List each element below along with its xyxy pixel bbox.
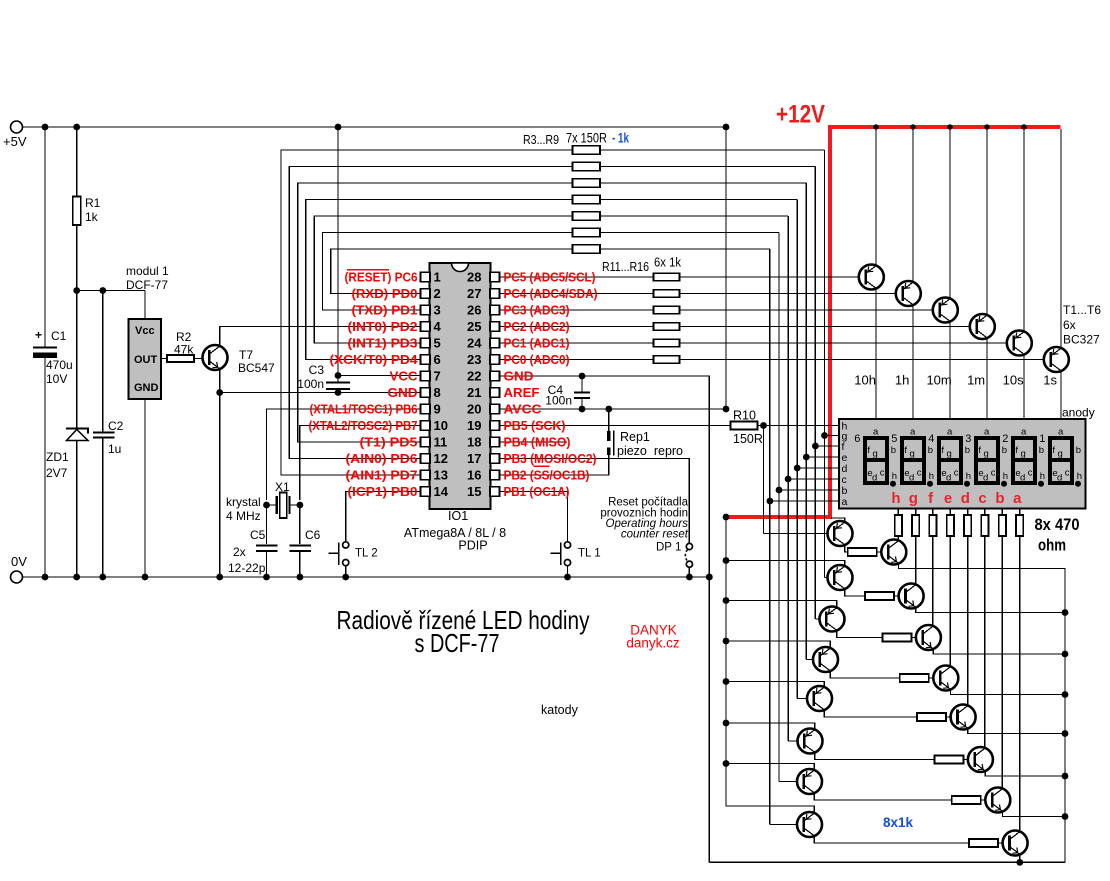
svg-text:1k: 1k xyxy=(85,210,99,224)
svg-text:g: g xyxy=(984,449,989,460)
label pin 20 AVCC xyxy=(504,403,542,417)
wire pair2 emitter feed xyxy=(726,561,845,566)
svg-text:R3...R9: R3...R9 xyxy=(523,132,559,147)
wire PC2 row xyxy=(500,326,654,328)
svg-text:19: 19 xyxy=(467,418,481,433)
svg-text:100n: 100n xyxy=(297,377,324,391)
junction ground C2 xyxy=(99,574,106,581)
resistor 470R col d xyxy=(964,515,971,536)
wire ZD1 to ground xyxy=(76,441,78,578)
svg-text:c: c xyxy=(880,468,885,479)
svg-text:(XTAL1/TOSC1) PB6: (XTAL1/TOSC1) PB6 xyxy=(310,403,418,417)
junction ground TL1 xyxy=(564,574,571,581)
svg-text:(AIN1) PD7: (AIN1) PD7 xyxy=(346,469,418,483)
svg-text:PC1 (ADC1): PC1 (ADC1) xyxy=(504,337,570,351)
wire display cathode a xyxy=(1019,509,1021,516)
svg-text:1s: 1s xyxy=(1043,373,1057,388)
resistor R15 xyxy=(654,339,680,347)
resistor 470R col g xyxy=(912,515,919,536)
svg-text:s DCF-77: s DCF-77 xyxy=(415,628,500,658)
svg-text:26: 26 xyxy=(467,303,481,318)
resistor R6 xyxy=(573,195,601,203)
svg-text:b: b xyxy=(1002,445,1007,456)
label pin 24 PC1 (ADC1) xyxy=(504,337,570,351)
svg-text:470u: 470u xyxy=(46,358,73,372)
svg-text:20: 20 xyxy=(467,402,481,417)
label katody xyxy=(541,703,579,717)
wire pair5 emitter feed xyxy=(726,682,824,687)
display digit 1 xyxy=(1039,427,1082,487)
capacitor C5 xyxy=(250,528,278,551)
svg-text:3: 3 xyxy=(434,303,441,318)
svg-text:6x: 6x xyxy=(1063,318,1076,332)
wire pair3 emitter feed xyxy=(726,601,837,608)
resistor R3 xyxy=(573,146,601,154)
junction ground C5 xyxy=(263,574,270,581)
transistor Q4b xyxy=(933,666,958,691)
wire 2V7 node xyxy=(77,290,145,292)
svg-text:PC5 (ADC5/SCL): PC5 (ADC5/SCL) xyxy=(504,271,596,285)
label pin 21 AREF xyxy=(504,386,540,400)
svg-text:(XTAL2/TOSC2) PB7: (XTAL2/TOSC2) PB7 xyxy=(309,419,418,433)
wire module Vcc xyxy=(144,291,146,320)
svg-text:1u: 1u xyxy=(108,442,121,456)
wire 1k to Q6b base xyxy=(963,759,974,761)
wire XTAL1 leg xyxy=(267,409,421,500)
wire C1 top xyxy=(44,127,46,347)
svg-text:ZD1: ZD1 xyxy=(46,450,69,464)
svg-text:C3: C3 xyxy=(309,363,325,377)
wire segment bus g vertical xyxy=(824,150,826,578)
wire T4 collector to display anode xyxy=(986,338,988,419)
wire segment row R3 left leg xyxy=(281,150,573,475)
transistor Q1a xyxy=(828,521,853,546)
pin 16 box xyxy=(467,468,499,483)
display digit 5 xyxy=(891,427,934,487)
label 1s xyxy=(1043,373,1057,388)
svg-text:14: 14 xyxy=(434,484,449,499)
wire pair3 base xyxy=(815,618,826,620)
pin 22 box xyxy=(467,369,499,384)
svg-text:GND: GND xyxy=(388,386,418,400)
transistor Q1b xyxy=(881,540,906,565)
svg-text:AREF: AREF xyxy=(504,386,540,400)
svg-text:piezo repro: piezo repro xyxy=(617,444,683,458)
svg-text:PB2 (SS/OC1B): PB2 (SS/OC1B) xyxy=(504,469,590,483)
svg-text:DP 1: DP 1 xyxy=(656,542,681,554)
junction emitter bus 6 xyxy=(1062,773,1069,780)
pin 5 box xyxy=(421,336,441,351)
wire display cathode g xyxy=(915,509,917,516)
svg-text:12: 12 xyxy=(434,451,448,466)
display digit 4 xyxy=(928,427,971,487)
wire segment row R4 right leg xyxy=(600,166,815,168)
wire T2 collector to display anode xyxy=(912,305,914,419)
svg-text:g: g xyxy=(1021,449,1026,460)
pin 26 box xyxy=(467,303,499,318)
crystal X1 xyxy=(226,480,300,523)
junction AVCC +5V drop xyxy=(723,406,730,413)
wire segment row R3 right leg xyxy=(600,149,825,151)
wire 470R to transistor 6 xyxy=(984,536,986,748)
wire PC0 to T6 base xyxy=(680,359,1051,361)
label pin 25 PC2 (ADC2) xyxy=(504,320,570,334)
svg-text:(TXD) PD1: (TXD) PD1 xyxy=(352,304,418,318)
wire AVCC pin20 row xyxy=(500,408,727,410)
svg-text:7x 150R: 7x 150R xyxy=(566,131,607,146)
wire PC1 to T5 base xyxy=(680,342,1014,344)
label title line1 xyxy=(337,605,590,635)
junction X1 right xyxy=(297,502,304,509)
junction X1 left xyxy=(263,502,270,509)
wire +12V bus vertical xyxy=(726,517,814,813)
svg-text:17: 17 xyxy=(467,451,481,466)
svg-text:0V: 0V xyxy=(11,554,27,569)
svg-text:16: 16 xyxy=(467,468,481,483)
junction ground GND return xyxy=(706,574,713,581)
wire segment row R9 left leg xyxy=(331,249,573,294)
svg-text:6x 1k: 6x 1k xyxy=(654,255,681,270)
resistor 1k pair3 xyxy=(882,634,911,642)
junction rail VCC drop xyxy=(335,124,342,131)
resistor R13 xyxy=(654,306,680,314)
wire display cathode c xyxy=(984,509,986,516)
wire C1 bottom xyxy=(44,358,46,577)
junction ground module GND xyxy=(142,574,149,581)
wire Q2b emitter xyxy=(916,608,1065,613)
wire segment row R7 right leg xyxy=(600,215,788,217)
pin 4 box xyxy=(421,319,442,334)
label pin 9 (XTAL1/TOSC1) PB6 xyxy=(310,403,418,417)
0V terminal xyxy=(11,554,28,583)
svg-text:1: 1 xyxy=(1039,433,1045,445)
label pin 1 (RESET) PC6 xyxy=(345,271,418,285)
svg-text:47k: 47k xyxy=(174,343,194,357)
svg-text:c: c xyxy=(1065,468,1070,479)
svg-text:21: 21 xyxy=(467,385,481,400)
label display pin e xyxy=(842,452,848,464)
svg-text:C6: C6 xyxy=(305,528,321,542)
pin 23 box xyxy=(467,352,499,367)
wire display pin d stub xyxy=(797,467,839,469)
svg-text:a: a xyxy=(1058,427,1064,438)
transistor Q3b xyxy=(916,625,941,650)
wire pair1 collector xyxy=(845,545,848,552)
+12V label xyxy=(776,101,825,129)
resistor R5 xyxy=(573,179,601,187)
junction ground C6 xyxy=(297,574,304,581)
wire PC3 row xyxy=(500,309,654,311)
transistor Q4a xyxy=(813,647,838,672)
svg-text:25: 25 xyxy=(467,319,481,334)
junction +12V rail T5 xyxy=(1021,124,1026,129)
junction +12V bus pair3 xyxy=(723,597,730,604)
wire 470R to transistor 1 xyxy=(897,536,899,540)
switch DP1 xyxy=(656,542,693,578)
svg-text:2x: 2x xyxy=(233,545,246,559)
svg-text:1m: 1m xyxy=(967,373,985,388)
svg-text:Rep1: Rep1 xyxy=(620,430,650,444)
svg-text:TL 1: TL 1 xyxy=(578,548,601,560)
junction rail R1 xyxy=(73,124,80,131)
wire GND pin22 row xyxy=(500,376,710,862)
resistor 1k pair6 xyxy=(934,756,963,764)
wire T6 emitter from +12V xyxy=(1060,129,1062,348)
resistors R3...R9 labels xyxy=(523,131,629,148)
wire Q4b emitter xyxy=(951,690,1066,695)
wire Q1b emitter to bus xyxy=(899,564,1066,863)
wire pair3 collector xyxy=(837,631,883,638)
svg-text:(RESET) PC6: (RESET) PC6 xyxy=(345,271,418,285)
svg-text:g: g xyxy=(1058,449,1063,460)
label pin 13 (AIN1) PD7 xyxy=(346,469,418,483)
svg-text:ohm: ohm xyxy=(1038,536,1066,555)
label pin 2 (RXD) PD0 xyxy=(352,287,418,301)
svg-text:a: a xyxy=(1013,490,1022,507)
svg-text:PC0 (ADC0): PC0 (ADC0) xyxy=(504,353,570,367)
svg-text:h: h xyxy=(1003,471,1008,482)
wire T4 emitter from +12V xyxy=(986,129,988,315)
junction segment b tee xyxy=(776,487,783,494)
junction emitter bus 2 xyxy=(1062,609,1069,616)
svg-text:f: f xyxy=(904,445,907,456)
transistor T3 xyxy=(933,298,958,323)
svg-text:PDIP: PDIP xyxy=(458,539,487,553)
svg-text:1: 1 xyxy=(434,270,441,285)
label pin 23 PC0 (ADC0) xyxy=(504,353,570,367)
svg-text:h: h xyxy=(966,471,971,482)
label pin 10 (XTAL2/TOSC2) PB7 xyxy=(309,419,418,433)
svg-text:d: d xyxy=(909,473,914,484)
junction +12V bus pair7 xyxy=(723,760,730,767)
svg-text:R10: R10 xyxy=(733,409,756,423)
wire 1k to Q1b base xyxy=(877,551,888,553)
pin 1 box xyxy=(421,270,441,285)
label display pin b xyxy=(842,485,848,497)
wire segment bus c vertical xyxy=(787,216,789,741)
svg-text:f: f xyxy=(867,445,870,456)
wire 1k to Q8b base xyxy=(998,842,1009,844)
junction +12V rail T4 xyxy=(984,124,989,129)
wire pair2 base xyxy=(825,577,835,579)
switch TL1 xyxy=(551,542,601,577)
svg-text:5: 5 xyxy=(891,433,897,445)
wire Q6b emitter xyxy=(985,771,1065,776)
svg-text:a: a xyxy=(984,427,990,438)
pin 13 box xyxy=(421,468,448,483)
resistor 470R col e xyxy=(947,515,954,536)
svg-text:(T1) PD5: (T1) PD5 xyxy=(360,436,418,450)
label reset counter xyxy=(600,497,688,541)
junction +12V bus pair2 xyxy=(723,557,730,564)
svg-text:8: 8 xyxy=(434,385,441,400)
label pin 19 PB5 (SCK) xyxy=(504,419,566,433)
svg-text:a: a xyxy=(910,427,916,438)
resistor R8 xyxy=(573,228,601,236)
wire T2 emitter from +12V xyxy=(912,129,914,282)
svg-text:h: h xyxy=(1040,471,1045,482)
pin 27 box xyxy=(467,286,499,301)
junction +12V rail T3 xyxy=(947,124,952,129)
svg-text:AVCC: AVCC xyxy=(504,403,542,417)
label pin 12 (AIN0) PD6 xyxy=(346,452,418,466)
junction C4 GND row xyxy=(579,373,586,380)
resistor 470R col c xyxy=(981,515,988,536)
label pin 18 PB4 (MISO) xyxy=(504,436,571,450)
svg-text:T1...T6: T1...T6 xyxy=(1063,303,1101,317)
transistor Q6a xyxy=(798,729,823,754)
svg-text:C2: C2 xyxy=(108,419,124,433)
transistor Q5b xyxy=(951,705,976,730)
wire segment bus a vertical xyxy=(769,249,771,825)
label 8x 470 ohm xyxy=(1035,515,1080,555)
label pin 14 (ICP1) PB0 xyxy=(348,485,418,499)
svg-text:10m: 10m xyxy=(926,373,951,388)
wire pair7 base xyxy=(779,781,804,783)
wire pair7 collector xyxy=(814,793,952,800)
label segment b red xyxy=(995,490,1004,507)
transistor T5 xyxy=(1007,331,1032,356)
svg-text:d: d xyxy=(872,473,877,484)
wire 470R to transistor 7 xyxy=(1001,536,1003,788)
wire segment row R8 right leg xyxy=(600,232,779,234)
svg-text:4: 4 xyxy=(434,319,442,334)
resistors R11...R16 labels xyxy=(602,255,681,275)
junction +12V bus pair6 xyxy=(723,720,730,727)
pin 9 box xyxy=(421,402,441,417)
svg-text:GND: GND xyxy=(134,382,159,394)
svg-text:b: b xyxy=(1039,445,1044,456)
wire +5V to VCC pin7 xyxy=(338,127,421,376)
svg-text:b: b xyxy=(928,445,933,456)
svg-text:d: d xyxy=(961,490,970,507)
svg-text:e: e xyxy=(944,490,952,507)
wire pair4 emitter feed xyxy=(726,641,830,648)
wire PB0 to TL2 xyxy=(346,492,421,542)
wire display cathode d xyxy=(967,509,969,516)
wire C6 to ground xyxy=(299,552,301,577)
label pin 8 GND xyxy=(388,386,418,400)
wire segment bus b vertical xyxy=(778,233,780,782)
svg-text:15: 15 xyxy=(467,484,481,499)
svg-text:BC327: BC327 xyxy=(1063,333,1100,347)
svg-text:6: 6 xyxy=(434,352,441,367)
svg-text:- 1k: - 1k xyxy=(612,131,629,146)
svg-text:g: g xyxy=(909,490,918,507)
wire 470R to transistor 3 xyxy=(932,536,934,626)
svg-text:3: 3 xyxy=(965,433,971,445)
wire T5 collector to display anode xyxy=(1023,355,1025,419)
display digit 3 xyxy=(965,427,1008,487)
junction ground TL2 xyxy=(342,574,349,581)
label pin 28 PC5 (ADC5/SCL) xyxy=(504,271,596,285)
svg-text:(INT1) PD3: (INT1) PD3 xyxy=(348,337,418,351)
wire R1 top xyxy=(76,127,78,197)
wire display pin c stub xyxy=(788,478,839,480)
junction ground DP1 xyxy=(686,574,693,581)
wire display cathode h xyxy=(897,509,899,516)
svg-text:a: a xyxy=(873,427,879,438)
pin 2 box xyxy=(421,286,441,301)
svg-text:2: 2 xyxy=(1002,433,1008,445)
wire +5V drop right xyxy=(725,127,727,409)
transistor Q7a xyxy=(797,769,822,794)
wire PC5 row xyxy=(500,276,654,278)
wire R10 to display h xyxy=(758,425,840,427)
wire display cathode f xyxy=(932,509,934,516)
svg-text:c: c xyxy=(978,490,986,507)
display digit 2 xyxy=(1002,427,1045,487)
wire module GND xyxy=(144,399,146,577)
label 1h xyxy=(895,373,909,388)
wire display cathode e xyxy=(949,509,951,516)
resistor 470R col a xyxy=(1016,515,1023,536)
wire Q8b emitter xyxy=(1019,855,1021,863)
wire Q5b emitter xyxy=(968,729,1065,734)
label segment g red xyxy=(909,490,918,507)
junction T7 emitter ground rail xyxy=(216,574,223,581)
wire segment row R5 right leg xyxy=(600,182,806,184)
svg-text:krystal: krystal xyxy=(226,495,261,509)
label pin 4 (INT0) PD2 xyxy=(348,320,418,334)
svg-text:10: 10 xyxy=(434,418,448,433)
wire PB1 to TL1 xyxy=(500,492,568,545)
wire display pin g stub xyxy=(825,435,840,437)
wire T6 collector to display anode xyxy=(1060,371,1062,419)
svg-text:10h: 10h xyxy=(854,373,876,388)
wire display pin a stub xyxy=(770,500,839,502)
label title line2 xyxy=(415,628,500,658)
svg-text:d: d xyxy=(946,473,951,484)
svg-text:2V7: 2V7 xyxy=(46,466,68,480)
svg-text:8x1k: 8x1k xyxy=(883,815,914,830)
wire C5 to ground xyxy=(266,552,268,577)
wire pair5 collector xyxy=(824,710,917,717)
wire R1 to ZD1 xyxy=(76,225,78,428)
pin 7 box xyxy=(421,369,441,384)
svg-text:2: 2 xyxy=(434,286,441,301)
wire pair8 collector xyxy=(814,836,969,843)
pin 8 box xyxy=(421,385,441,400)
label pin 26 PC3 (ADC3) xyxy=(504,304,570,318)
resistor R14 xyxy=(654,323,680,331)
svg-text:(INT0) PD2: (INT0) PD2 xyxy=(348,320,418,334)
svg-text:C5: C5 xyxy=(250,528,266,542)
wire PC3 to T3 base xyxy=(680,309,940,311)
wire segment bus e vertical xyxy=(805,183,807,660)
label segment a red xyxy=(1013,490,1022,507)
label 10m xyxy=(926,373,951,388)
pin 19 box xyxy=(467,418,499,433)
wire PB4 stub xyxy=(500,441,568,443)
transistor Q7b xyxy=(985,788,1010,813)
svg-text:PC2 (ADC2): PC2 (ADC2) xyxy=(504,320,570,334)
wire pair1 emitter stub xyxy=(831,518,845,522)
transistor Q2a xyxy=(828,565,853,590)
svg-text:katody: katody xyxy=(541,703,579,717)
wire bottom return rail xyxy=(709,861,1065,863)
svg-text:ATmega8A / 8L / 8: ATmega8A / 8L / 8 xyxy=(404,526,506,540)
wire T3 emitter from +12V xyxy=(949,129,951,298)
resistor 1k pair1 xyxy=(848,548,877,556)
pin 15 box xyxy=(467,484,499,499)
junction 2V7 node C2 xyxy=(99,287,106,294)
label display pin c xyxy=(842,474,847,486)
junction ground C1 xyxy=(42,574,49,581)
svg-text:h: h xyxy=(891,490,900,507)
svg-text:h: h xyxy=(929,471,934,482)
svg-text:f: f xyxy=(1052,445,1055,456)
